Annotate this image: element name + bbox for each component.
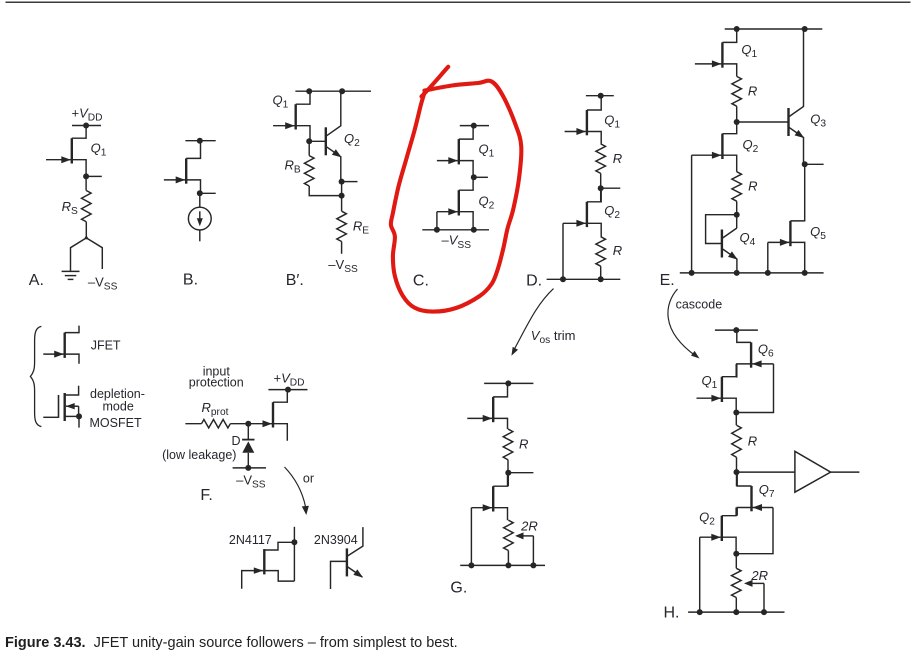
label Q2 (E) [743,137,759,155]
label E. [660,272,675,289]
node collector Q2 rail (B') [339,88,345,94]
svg-text:+VDD: +VDD [274,370,305,388]
wire emitter node to Q5 drain [804,164,806,221]
svg-text:protection: protection [189,376,244,390]
svg-text:+VDD: +VDD [72,105,103,123]
node R / Q4 collector (E) [734,212,740,218]
label R lower (E) [748,179,757,194]
svg-text:Q1: Q1 [604,113,620,131]
legend brace [30,326,41,426]
node Q5 gate rail (E) [765,270,771,276]
svg-text:–VSS: –VSS [88,274,118,292]
resistor R upper (D) [596,144,606,174]
svg-text:R: R [613,151,622,166]
transistor Q1 JFET (C) [437,126,473,178]
svg-text:B′.: B′. [286,272,304,289]
wire R to output node (H) [736,457,738,472]
rail bottom (E) [680,272,824,274]
svg-text:2R: 2R [520,519,538,534]
label MOSFET [90,416,142,430]
node output (C) [471,174,488,180]
node gate Q2 rail (E) [689,270,695,276]
resistor R (H) [732,425,742,457]
wire emitter node down [341,182,343,196]
transistor Q2 JFET (H) [700,508,736,554]
node gate rail (C) [434,227,440,233]
label G. [450,580,467,597]
svg-text:2N3904: 2N3904 [314,533,358,547]
node emitter output (E) [802,161,824,167]
label Vos trim [531,328,576,346]
svg-text:RS: RS [62,199,78,217]
rail -VSS (F) [233,467,266,469]
label 2R (G) [520,519,538,534]
label -VSS (A) [88,274,118,292]
label Q5 (E) [810,224,826,242]
svg-text:R: R [748,434,757,449]
wire R to node (G) [507,460,509,473]
node drain Q1 (D) [598,93,604,99]
label H. [664,605,680,622]
label or [303,472,314,486]
node wiper rail (G) [530,562,536,568]
svg-text:Q1: Q1 [479,142,495,160]
label Q2 (C) [479,194,495,212]
wire R to node (E) [736,106,738,122]
svg-text:Q1: Q1 [702,373,718,391]
label Q1 (C) [479,142,495,160]
label Q6 (H) [758,342,774,360]
node drain Q1 rail (E) [734,26,740,32]
resistor RB [304,156,314,186]
label F. [200,487,212,504]
transistor Q3 BJT (E) [789,29,805,164]
node Q1 source / Q3 base (E) [734,119,740,125]
node collector Q3 rail (E) [802,26,808,32]
wire 2R to rail (H) [735,598,737,613]
transistor Q2 BJT (B') [326,91,342,181]
svg-text:D.: D. [526,272,542,289]
transistor JFET lower (G) [471,473,507,521]
label B'. [286,272,304,289]
node wiper rail (H) [761,609,767,615]
label 2N3904 [314,533,358,547]
arrow or [285,467,309,515]
wire node to Q3 base [737,121,789,123]
label protection [189,376,244,390]
wire junction to RE [341,196,343,212]
wire current source bottom stub [199,230,201,241]
wire gate down (G) [470,508,472,566]
transistor Q2 JFET (C) [437,177,473,230]
supply rail (B) [185,140,215,142]
node Q5 source rail (E) [802,270,808,276]
svg-text:–VSS: –VSS [328,257,358,275]
node source output (B) [197,190,216,196]
node source rail (C) [471,227,477,233]
wire source node to RS [85,176,87,190]
svg-text:–VSS: –VSS [236,473,266,491]
label R lower (D) [613,243,622,258]
node Q4 emitter rail (E) [734,270,740,276]
svg-text:F.: F. [200,487,212,504]
transistor 2N3904 diode-connected BJT [331,527,364,589]
label RS [62,199,78,217]
label Rprot [202,400,229,418]
resistor RE [337,211,347,241]
label RE [353,219,369,237]
svg-text:E.: E. [660,272,675,289]
label 2N4117 [229,533,272,547]
supply rail (E) [725,28,823,30]
diode D (low leakage) [242,440,254,468]
svg-text:Q1: Q1 [91,141,107,159]
supply rail (H) [715,329,758,331]
arrow Vos trim [511,289,553,356]
wire Q2 gate down (D) [562,223,564,279]
node gate rail (D) [560,276,566,282]
wire 2R to rail (G) [507,551,509,566]
svg-text:R: R [613,243,622,258]
node drain Q6 rail (H) [733,327,739,333]
resistor RS [82,191,92,222]
wire node to RB [308,141,310,155]
node 2R rail (G) [505,562,511,568]
resistor Rprot [202,420,231,428]
wire Q5 gate down (E) [767,242,769,273]
resistor R lower (E) [732,172,742,202]
label Q2 (B') [344,131,360,149]
svg-text:or: or [303,472,314,486]
transistor Q2 JFET (D) [563,188,601,237]
svg-text:Q3: Q3 [810,112,826,130]
rail bottom (D) [547,278,621,280]
op-amp buffer (H) [795,451,831,492]
label -VSS (F) [236,473,266,491]
caption Figure 3.43 [5,635,458,651]
svg-text:C.: C. [413,272,429,289]
label A. [29,272,44,289]
ground [62,271,80,279]
svg-text:G.: G. [450,580,467,597]
rail bottom (G) [460,564,545,566]
label R upper (E) [748,84,757,99]
wire RE to -VSS stub [341,242,343,254]
transistor Q1 JFET (B') [273,91,310,141]
node output (G) [505,470,533,476]
svg-text:H.: H. [664,605,680,622]
transistor Q1 JFET (H) [697,364,737,413]
resistor 2R (G) [504,520,514,550]
label B. [183,271,198,288]
resistor 2R (H) [732,568,742,597]
svg-text:Q5: Q5 [810,224,826,242]
wire node to 2R (H) [735,554,737,569]
label R (G) [519,437,528,452]
wire Q2 gate down to rail [436,212,438,230]
node RB/RE junction (B') [339,193,345,199]
node output (D) [598,185,621,191]
label Q1 (H) [702,373,718,391]
node drain Q1 rail (B') [306,88,312,94]
resistor R lower (D) [596,237,606,267]
label Q1 [91,141,107,159]
transistor Q1 JFET (E) [695,29,737,76]
transistor Q5 JFET (E) [768,221,805,273]
wire RS bottom to junction [85,222,88,240]
rail -VSS (C) [422,229,489,231]
svg-text:2N4117: 2N4117 [229,533,272,547]
node Q1 source (H) [733,410,739,416]
wire Q2 gate down (E) [691,155,693,273]
label cascode [676,298,723,312]
svg-text:MOSFET: MOSFET [90,416,142,430]
wire node to Q7 drain (H) [736,472,738,486]
wire node to lower JFET (G) [507,473,509,487]
current source I1 [188,207,211,230]
arrow cascode [668,289,700,359]
label mode [103,399,134,413]
label Q3 (E) [810,112,826,130]
svg-text:RE: RE [353,219,369,237]
node -VSS rail (F) [245,465,251,471]
node rail (F) [285,387,291,393]
red annotation circle around C [391,67,522,312]
svg-text:Q2: Q2 [743,137,759,155]
svg-text:Q7: Q7 [759,482,775,500]
supply rail (G) [484,382,533,384]
node gate rail (H) [697,609,703,615]
transistor Q4 BJT (E) [722,228,738,273]
label -VSS (C) [442,233,472,251]
legend JFET symbol [43,326,79,364]
node R rail (D) [598,276,604,282]
wire Q7 gate bracket (H) [736,508,773,554]
label Q7 (H) [759,482,775,500]
node gate rail (G) [468,562,474,568]
node output (H) [734,469,740,475]
label JFET [91,339,121,353]
svg-text:R: R [748,84,757,99]
transistor Q6 JFET mirrored (H) [737,330,774,378]
transistor JFET upper (G) [467,383,507,429]
resistor R upper (E) [732,76,742,106]
label R (H) [748,434,757,449]
svg-text:Q1: Q1 [273,92,289,110]
supply rail (B') [295,90,371,92]
wire junction to ground branch [71,238,87,271]
label Q1 (D) [604,113,620,131]
supply rail +VDD (A) [72,125,101,127]
wiper arrow 2R (H) [744,580,764,612]
transistor Q7 JFET mirrored (H) [737,472,773,516]
rail bottom (H) [688,611,784,613]
node drain Q1 / +VDD [83,123,89,129]
label Q2 (D) [604,203,620,221]
label Q2 (H) [699,510,715,528]
label 2R (H) [750,568,768,583]
wire source to current source [199,193,201,207]
label +VDD (F) [274,370,305,388]
wire input lead (F) [185,423,201,425]
svg-text:B.: B. [183,271,198,288]
label input [203,364,231,378]
wire node to Q2 drain (D) [600,188,602,202]
svg-text:Q2: Q2 [479,194,495,212]
node drain Q1 (C) [471,123,477,129]
svg-text:R: R [748,179,757,194]
label (low leakage) [162,448,236,462]
wiper arrow 2R (G) [515,532,533,565]
wire Rprot to node (F) [230,423,248,425]
label depletion- [90,387,145,401]
label Q1 (B') [273,92,289,110]
svg-text:2R: 2R [750,568,768,583]
svg-text:RB: RB [285,158,301,176]
wire R to node (D) [600,173,602,188]
wire node to R (H) [735,413,737,426]
supply rail (C) [460,125,489,127]
legend depletion MOSFET symbol [43,386,82,428]
label R upper (D) [613,151,622,166]
node Q1 source / Q2 base [306,138,312,144]
transistor Q1 (JFET) [46,126,86,177]
node emitter output (B') [339,179,358,185]
svg-text:Vos trim: Vos trim [531,328,576,346]
svg-text:A.: A. [29,272,44,289]
label D [232,434,241,448]
wire R to rail (D) [600,266,602,279]
transistor JFET (F) [249,390,287,441]
wire R to node Q4 (E) [736,201,738,215]
svg-text:JFET: JFET [91,339,121,353]
svg-text:Q2: Q2 [344,131,360,149]
transistor Q1 JFET (D) [565,96,602,144]
svg-text:–VSS: –VSS [442,233,472,251]
svg-text:R: R [519,437,528,452]
label D. [526,272,542,289]
label Q4 (E) [740,230,756,248]
svg-text:Q6: Q6 [758,342,774,360]
node drain rail (G) [505,380,511,386]
wire RB bottom to emitter node [309,186,341,196]
transistor JFET (B) [164,141,201,194]
svg-text:Q1: Q1 [741,42,757,60]
wire node to diode (F) [247,424,249,440]
wire Q1 source to Q2 base [309,140,326,142]
node Q2 source / 2R (H) [733,551,739,557]
node source output (A) [83,173,102,179]
svg-text:Q4: Q4 [740,230,756,248]
svg-text:D: D [232,434,241,448]
wire junction to -VSS branch [86,238,102,269]
svg-text:(low leakage): (low leakage) [162,448,236,462]
supply rail (F) [268,389,307,391]
node drain (B) [197,138,203,144]
wire node to buffer (H) [737,471,795,473]
resistor R (G) [503,429,513,460]
transistor 2N4117 diode-connected JFET [242,527,298,589]
svg-text:mode: mode [103,399,134,413]
wire node to Q4 collector [736,215,738,228]
svg-text:Rprot: Rprot [202,400,229,418]
label -VSS (B') [328,257,358,275]
label +VDD [72,105,103,123]
svg-text:cascode: cascode [676,298,723,312]
svg-text:Figure 3.43. JFET unity-gain: Figure 3.43. JFET unity-gain source foll… [5,635,458,651]
label RB [285,158,301,176]
svg-text:Q2: Q2 [604,203,620,221]
wire Q4 base loop [706,215,737,244]
svg-text:Q2: Q2 [699,510,715,528]
wire Q2 gate down (H) [699,537,701,612]
node gate / diode (F) [245,421,251,427]
wire buffer output (H) [831,471,860,473]
node 2R rail (H) [733,609,739,615]
label Q1 (E) [741,42,757,60]
transistor Q2 JFET (E) [692,122,737,172]
wire Q6 gate bracket (H) [736,364,773,413]
supply rail (D) [586,95,614,97]
label C. [413,272,429,289]
